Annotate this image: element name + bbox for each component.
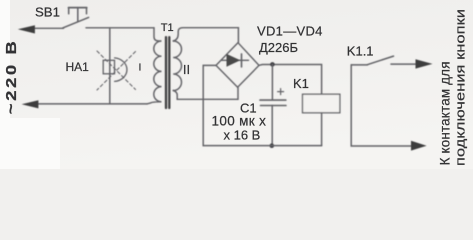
svg-text:II: II bbox=[183, 62, 190, 77]
svg-text:х 16 В: х 16 В bbox=[224, 128, 261, 143]
switch SB1 button cap bbox=[69, 7, 87, 9]
switch SB1 stem bbox=[77, 8, 79, 22]
transformer T1 primary winding I bbox=[147, 28, 162, 104]
wire C1 top lead bbox=[271, 64, 273, 99]
svg-text:SB1: SB1 bbox=[35, 4, 60, 19]
wire top mains rail left of SB1 bbox=[31, 27, 64, 29]
transformer T1 core bbox=[165, 37, 167, 108]
node junction dot at C1 bottom bbox=[270, 143, 275, 148]
svg-text:K1.1: K1.1 bbox=[347, 43, 374, 58]
arrow to button contacts (bottom) bbox=[411, 141, 427, 151]
capacitor C1 plus sign bbox=[278, 89, 284, 95]
svg-text:VD1—VD4: VD1—VD4 bbox=[257, 24, 323, 39]
switch SB1 blade bbox=[63, 17, 89, 28]
svg-text:100 мк х: 100 мк х bbox=[212, 113, 267, 128]
wire DC+ from bridge to relay bbox=[259, 65, 322, 95]
wire K1 bottom lead bbox=[321, 113, 323, 146]
wire top rail SB1 to transformer bbox=[86, 27, 154, 29]
transformer T1 secondary winding II bbox=[173, 41, 181, 91]
diode symbol inside bridge bbox=[222, 59, 249, 61]
relay K1 coil box bbox=[303, 94, 340, 113]
wire secondary bottom to bridge bbox=[173, 88, 238, 100]
arrow to button contacts (top) bbox=[416, 59, 433, 68]
svg-text:подключения кнопки: подключения кнопки bbox=[454, 9, 468, 166]
wire K1.1 right terminal bbox=[391, 63, 418, 65]
svg-text:HA1: HA1 bbox=[66, 60, 90, 74]
svg-text:K1: K1 bbox=[293, 76, 309, 91]
svg-text:К контактам для: К контактам для bbox=[438, 61, 453, 165]
contact K1.1 left terminal and bottom wire bbox=[351, 65, 412, 146]
sounder HA1 dome bbox=[115, 58, 127, 82]
svg-text:~220 В: ~220 В bbox=[3, 39, 20, 115]
bridge rectifier diamond VD1-VD4 bbox=[216, 43, 259, 88]
wire C1 bottom lead bbox=[271, 106, 273, 146]
capacitor C1 plates bbox=[260, 99, 286, 101]
sounder HA1 square bbox=[103, 60, 114, 74]
contact K1.1 blade bbox=[367, 56, 393, 65]
wire HA1 branch vertical bbox=[109, 28, 111, 104]
wire secondary top to bridge bbox=[173, 28, 238, 43]
arrow to mains (top) bbox=[18, 25, 35, 33]
svg-text:I: I bbox=[139, 61, 142, 73]
svg-text:T1: T1 bbox=[161, 22, 174, 34]
paper background bbox=[0, 0, 473, 169]
arrow to mains (bottom) bbox=[22, 100, 39, 108]
node junction dot at C1 top bbox=[270, 62, 275, 67]
svg-text:Д226Б: Д226Б bbox=[259, 40, 298, 55]
sounder HA1 dashed cross bbox=[97, 51, 136, 90]
wire bottom mains rail bbox=[34, 103, 147, 105]
wire DC- from bridge left vertex down and along bottom bbox=[203, 65, 321, 145]
